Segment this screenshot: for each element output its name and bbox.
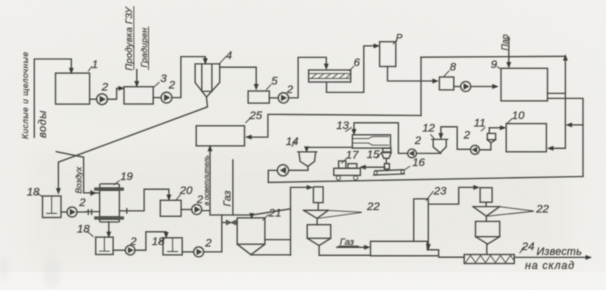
kiln (long furnace box): [371, 241, 439, 256]
arrow into hopper 12: [439, 134, 443, 139]
wire: steam (Пар) arrow into box 9: [508, 37, 510, 63]
arrow into box 10 from vessel 11: [500, 126, 505, 130]
cyclone 22 (right) top box: [480, 188, 492, 203]
arrow up into box 25 (в осветлитель): [208, 146, 212, 151]
wire: feed arrow into hopper 12 from vessel 11 pump: [441, 127, 470, 150]
pump 16 (mill feed): [408, 149, 417, 158]
underline of text Градирен: [148, 27, 150, 70]
cyclone 22 (right) body: [476, 221, 500, 236]
arrow into kiln (Газ): [365, 246, 370, 250]
pump after box 8: [461, 82, 471, 92]
wire: box 9 upper outlet to riser x565: [548, 92, 566, 94]
wire: pump up to box 25 (в осветлитель) and down to gas bus: [202, 150, 291, 215]
bin 15 under mill: [383, 148, 391, 152]
pump 2 after tank 18c: [194, 247, 204, 257]
wire: mill 13 discharge to hopper 14: [306, 146, 352, 149]
wire: pump to box 9: [471, 86, 494, 88]
hopper 12: [432, 139, 448, 153]
arrow into hopper 14: [305, 147, 309, 152]
arrow air into reactor 19: [91, 191, 96, 195]
wire: pump 2 (hopper 14) loop to lower bus: [268, 167, 308, 183]
reactor 19: [100, 184, 120, 188]
wire: pump over into tank 18c: [135, 232, 166, 250]
wire: reactor 19 bottom outlet into tank 18b: [108, 222, 110, 233]
vessel 11: [487, 133, 495, 139]
pump 2 at vessel 11: [471, 145, 480, 154]
arrow into tank 18c: [164, 233, 168, 238]
arrow into clarifier 4: [204, 59, 208, 64]
wire: riser from tank 21 bottom up to cyclone 22: [291, 187, 310, 255]
wire: tank 18c to pump 2: [182, 251, 193, 253]
arrow into kiln notch: [427, 245, 431, 250]
arrow into box 10 right nozzle: [548, 147, 553, 151]
wire: kiln to screw conveyor 24: [439, 256, 464, 258]
wire: gas line down to valve of tank 21: [222, 160, 238, 252]
wire: vessel 11 to box 10: [489, 127, 502, 129]
heat exchanger 6: [309, 70, 351, 82]
pump 2a: [97, 94, 108, 105]
wire: riser x565 from top bus down to box 10: [550, 57, 566, 149]
arrow into tank 18a: [57, 189, 61, 194]
box 20: [160, 200, 181, 216]
arrowheads: [57, 44, 591, 259]
valve at tank 21: [226, 220, 235, 224]
wire: column P bottom to box 8: [388, 67, 435, 82]
screw conveyor 24: [464, 255, 514, 264]
tank 18b: [96, 237, 113, 254]
wire: air (Воздух) line into reactor 19 upper nozzle: [56, 152, 99, 196]
belt conveyor 16: [374, 170, 405, 175]
wire: tank 18b to pump 2: [113, 249, 125, 251]
column P: [380, 42, 396, 67]
wire: cyclone 22 right outlet onto conveyor 24: [486, 244, 488, 254]
cyclone 22 (left) body: [307, 225, 331, 239]
box 10: [506, 124, 546, 152]
cyclone 22 (left) top box: [313, 187, 323, 203]
arrow into box 8: [433, 79, 438, 83]
arrow into cyclone 22 right: [474, 186, 479, 190]
wire: clarifier 4 underflow diagonal to tank 18a: [58, 97, 207, 189]
box 1: [56, 73, 90, 104]
wire: arrow from bin 15 toward truck 17: [363, 166, 385, 168]
pump 2b: [161, 92, 172, 103]
arrow up into top bus: [564, 55, 568, 60]
truck 17: [334, 168, 361, 175]
clarifier 4: [195, 64, 220, 97]
arrow into box 5: [254, 84, 258, 89]
arrow into mill 13: [352, 129, 356, 134]
wire: cyclone 22 left dust outlet to kiln: [319, 246, 370, 256]
wire: box 8 to pump 2: [454, 86, 461, 88]
wire: box 1 to pump 2a: [90, 98, 97, 100]
cyclone 22 (left) funnel and pointers to label: [304, 203, 329, 225]
box 9: [501, 68, 548, 101]
arrow into exchanger 6: [325, 64, 329, 69]
wire: box 5 to pump 2c: [269, 97, 278, 99]
mill 13: [352, 135, 390, 148]
pump 2c: [278, 93, 288, 103]
wire: box 3 to pump 2b: [153, 97, 161, 99]
wire: box 20 to pump 2: [181, 209, 192, 211]
wire: pump 2c up and over into heat exchanger 6: [289, 57, 327, 98]
wire: riser x421 from bus to box-8 junction: [420, 57, 422, 115]
pump 2 after box 20: [192, 205, 202, 215]
wire: arrow down into tank 21 from bus: [251, 214, 253, 216]
wire: inlet line (acid/alkaline water) into box 1: [34, 59, 71, 137]
arrow into box 20: [167, 195, 171, 200]
wire: long lower bus: [268, 177, 583, 183]
pump 2 under hopper 14: [277, 165, 288, 176]
wire: kiln gas offtake to line 23 and cyclone 22 right: [414, 187, 476, 245]
tank 21: [237, 218, 265, 244]
pump 2 after tank 18b: [125, 245, 135, 255]
wire: top return bus: [421, 55, 565, 58]
wire: pump 2a to box 3: [107, 88, 120, 99]
wire: lime out to warehouse: [514, 256, 587, 258]
box 5: [248, 91, 269, 103]
wire: pump into reactor 19 lower nozzle with flange ticks: [77, 210, 100, 215]
wire: box 9 lower outlet down right side: [548, 98, 584, 176]
hopper 14: [298, 152, 317, 167]
wire: reactor 19 to box 20: [119, 189, 168, 213]
wire: tank 21 side and bottom links: [251, 240, 291, 255]
wire: pump after tank 18c to gas-bus riser: [204, 251, 222, 253]
wire: clarifier 4 overflow to box 5: [220, 67, 257, 85]
arrow into riser x565: [567, 123, 572, 127]
item number labels: [27, 33, 550, 253]
wire: clarifier-4 area lines / bus to box 25: [249, 114, 421, 137]
arrow into box 25 from bus: [246, 135, 251, 139]
pump 2 after tank 18a: [67, 207, 77, 217]
tank 18a: [43, 196, 62, 218]
arrow into box 3 top (blowdown): [135, 82, 139, 87]
box 3: [124, 87, 153, 104]
arrow into box 1: [70, 68, 74, 73]
underline of text Продувка ГЗУ: [133, 7, 135, 70]
arrow reactor 19 into tank 18b: [107, 232, 111, 237]
wire: tank 18a to pump 2: [61, 211, 67, 213]
wire: hopper 12 via pump 16 into mill 13: [354, 123, 441, 154]
arrow into cyclone 22 left: [307, 186, 312, 190]
box 8: [439, 77, 453, 90]
arrow down into tank 21: [250, 214, 254, 218]
label pointer slashes: [37, 41, 524, 253]
wire: branch into riser x565: [569, 124, 583, 126]
box 25: [196, 126, 244, 146]
arrow from bin 15 to truck: [361, 165, 366, 169]
wire: pump 2b up and over into clarifier 4: [172, 57, 205, 98]
arrow steam into box 9: [507, 62, 511, 67]
wire: exchanger 6 bottom to column P: [327, 46, 376, 93]
wire: blowdown feed arrow into box 3: [136, 70, 138, 83]
tank 18c: [163, 238, 182, 255]
arrow into column P: [374, 44, 379, 48]
wire: gas (Газ) arrow into kiln: [337, 246, 366, 247]
arrow into box 3: [119, 87, 124, 91]
arrow lime to warehouse: [586, 256, 591, 260]
scan smudge bottom-left: [43, 256, 61, 288]
wire: pump up into vessel 11: [480, 143, 491, 150]
cyclone 22 (right) funnel and pointers to label: [473, 202, 500, 221]
arrow into box 9: [493, 85, 498, 89]
